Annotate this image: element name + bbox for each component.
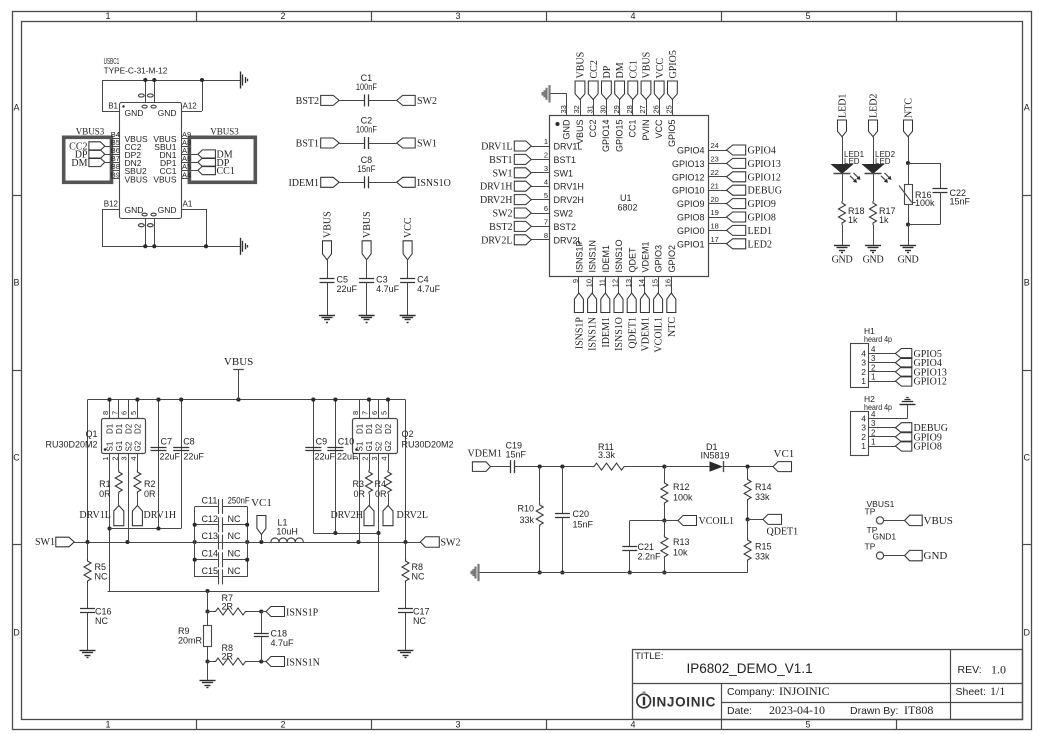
svg-text:NTC: NTC [904, 98, 915, 118]
svg-text:SW2: SW2 [441, 538, 461, 549]
svg-text:C: C [1023, 453, 1030, 463]
svg-text:NC: NC [95, 616, 108, 626]
svg-text:INJOINIC: INJOINIC [779, 684, 830, 698]
svg-text:DM: DM [615, 62, 626, 78]
svg-text:ISNS1O: ISNS1O [614, 239, 624, 272]
svg-text:R14: R14 [755, 482, 772, 492]
svg-text:S2: S2 [375, 441, 384, 451]
svg-text:CC1: CC1 [628, 60, 639, 78]
svg-text:ISNS1P: ISNS1P [575, 240, 585, 272]
svg-text:22uF: 22uF [337, 284, 358, 294]
svg-text:DRV1L: DRV1L [79, 510, 110, 521]
svg-text:A: A [13, 103, 19, 113]
svg-text:GPIO5: GPIO5 [668, 50, 679, 78]
svg-text:3.3k: 3.3k [598, 450, 616, 460]
svg-text:3: 3 [120, 457, 129, 461]
svg-text:100nF: 100nF [356, 125, 377, 135]
svg-text:D1: D1 [365, 423, 374, 434]
svg-text:Sheet:: Sheet: [956, 686, 986, 698]
svg-text:C: C [13, 453, 20, 463]
svg-text:2R: 2R [222, 652, 234, 662]
svg-text:DRV2L: DRV2L [397, 510, 428, 521]
svg-text:SW2: SW2 [417, 96, 437, 107]
svg-text:R10: R10 [517, 504, 534, 514]
svg-text:DRV1L: DRV1L [481, 142, 512, 153]
svg-text:INJOINIC: INJOINIC [652, 695, 716, 710]
svg-text:4: 4 [630, 720, 635, 730]
svg-text:GND: GND [562, 119, 572, 140]
svg-text:USBC1: USBC1 [104, 57, 120, 66]
svg-text:CC2: CC2 [588, 120, 598, 138]
svg-text:C12: C12 [202, 514, 219, 524]
svg-text:1: 1 [105, 720, 110, 730]
svg-text:GPIO12: GPIO12 [672, 172, 705, 182]
svg-text:NTC: NTC [667, 317, 678, 337]
svg-text:D: D [13, 628, 20, 638]
svg-text:DRV2L: DRV2L [481, 235, 512, 246]
svg-text:4: 4 [630, 11, 635, 21]
svg-text:BST2: BST2 [489, 222, 512, 233]
svg-text:GND: GND [158, 108, 177, 118]
svg-text:100nF: 100nF [356, 82, 377, 92]
svg-text:C3: C3 [376, 274, 388, 284]
svg-text:100k: 100k [673, 493, 693, 503]
svg-text:C11: C11 [202, 496, 218, 506]
svg-text:32: 32 [572, 105, 581, 113]
svg-text:8: 8 [351, 411, 360, 415]
svg-text:23: 23 [711, 155, 719, 164]
svg-text:11: 11 [598, 279, 607, 287]
svg-text:LED2: LED2 [748, 239, 772, 250]
svg-text:5: 5 [805, 720, 810, 730]
svg-text:B: B [1024, 278, 1030, 288]
svg-text:VBUS3: VBUS3 [210, 127, 239, 137]
svg-text:A: A [1024, 103, 1030, 113]
svg-text:GND1: GND1 [873, 532, 897, 542]
svg-text:3: 3 [455, 720, 460, 730]
svg-text:G2: G2 [134, 440, 143, 451]
svg-text:C15: C15 [202, 566, 219, 576]
svg-text:R2: R2 [144, 479, 156, 489]
svg-text:VBUS: VBUS [575, 120, 585, 145]
svg-text:27: 27 [638, 105, 647, 113]
svg-text:G2: G2 [384, 440, 393, 451]
svg-text:D2: D2 [384, 423, 393, 434]
svg-text:1: 1 [871, 373, 876, 382]
svg-text:ISNS1P: ISNS1P [575, 317, 586, 350]
svg-text:LED1: LED1 [838, 94, 849, 118]
svg-text:A1: A1 [183, 200, 193, 209]
svg-text:15nF: 15nF [950, 196, 971, 206]
svg-text:IP6802_DEMO_V1.1: IP6802_DEMO_V1.1 [687, 661, 813, 676]
svg-text:GPIO10: GPIO10 [672, 186, 705, 196]
svg-text:2023-04-10: 2023-04-10 [769, 703, 825, 717]
svg-text:VBUS: VBUS [576, 52, 587, 79]
svg-text:B: B [13, 278, 19, 288]
svg-text:22: 22 [711, 168, 719, 177]
svg-text:2: 2 [361, 457, 370, 461]
svg-text:C5: C5 [337, 274, 349, 284]
svg-text:S1: S1 [356, 441, 365, 451]
svg-text:GPIO0: GPIO0 [677, 226, 705, 236]
svg-text:1k: 1k [848, 215, 858, 225]
svg-text:Q1: Q1 [85, 429, 97, 439]
svg-text:7: 7 [110, 411, 119, 415]
svg-text:20: 20 [711, 195, 719, 204]
svg-text:VCC: VCC [654, 119, 664, 139]
svg-text:C4: C4 [417, 274, 429, 284]
svg-text:VBUS: VBUS [924, 515, 953, 527]
svg-text:heard 4p: heard 4p [864, 402, 892, 412]
svg-text:GND: GND [924, 550, 948, 562]
svg-text:S1: S1 [106, 441, 115, 451]
svg-text:6: 6 [370, 411, 379, 415]
svg-text:GPIO8: GPIO8 [677, 213, 705, 223]
svg-text:IT808: IT808 [904, 703, 933, 717]
svg-text:GPIO9: GPIO9 [677, 199, 705, 209]
svg-text:SW2: SW2 [493, 209, 513, 220]
svg-text:C7: C7 [161, 437, 173, 447]
svg-text:D1: D1 [106, 423, 115, 434]
svg-text:IDEM1: IDEM1 [601, 245, 611, 273]
svg-text:VBUS: VBUS [642, 52, 653, 79]
svg-text:15: 15 [650, 279, 659, 287]
svg-text:1: 1 [861, 376, 866, 386]
svg-text:DRV1H: DRV1H [144, 510, 177, 521]
svg-text:Q2: Q2 [402, 429, 414, 439]
svg-text:5: 5 [544, 191, 548, 200]
svg-text:3: 3 [370, 457, 379, 461]
svg-text:GPIO2: GPIO2 [667, 245, 677, 273]
svg-text:BST1: BST1 [554, 155, 577, 165]
svg-text:VC1: VC1 [251, 497, 272, 509]
svg-text:GPIO13: GPIO13 [748, 159, 781, 170]
svg-text:Company:: Company: [727, 686, 775, 698]
svg-text:VBUS: VBUS [362, 211, 373, 238]
svg-text:SW1: SW1 [35, 537, 55, 548]
svg-text:1/1: 1/1 [990, 684, 1005, 698]
svg-text:1.0: 1.0 [991, 663, 1006, 677]
svg-text:4: 4 [129, 457, 138, 461]
svg-text:PVIN: PVIN [641, 120, 651, 141]
svg-text:ISNS1N: ISNS1N [588, 317, 599, 351]
svg-text:4: 4 [871, 410, 876, 419]
svg-text:C21: C21 [638, 542, 655, 552]
svg-text:7: 7 [544, 218, 548, 227]
svg-text:DM: DM [71, 158, 87, 169]
svg-text:0R: 0R [353, 489, 365, 499]
svg-text:16: 16 [664, 279, 673, 287]
svg-text:12: 12 [611, 279, 620, 287]
svg-text:DRV2H: DRV2H [480, 195, 513, 206]
svg-text:GND: GND [125, 205, 144, 215]
svg-text:TP: TP [865, 542, 876, 552]
svg-text:VBUS3: VBUS3 [76, 127, 105, 137]
svg-text:6802: 6802 [618, 203, 638, 213]
svg-text:VCOIL1: VCOIL1 [654, 317, 665, 353]
svg-text:21: 21 [711, 181, 719, 190]
svg-text:GPIO12: GPIO12 [914, 377, 947, 388]
svg-text:DP: DP [602, 65, 613, 78]
svg-text:4: 4 [544, 177, 548, 186]
svg-text:15nF: 15nF [357, 164, 375, 174]
svg-text:Drawn By:: Drawn By: [850, 705, 898, 717]
svg-text:2.2nF: 2.2nF [638, 552, 662, 562]
svg-text:NC: NC [228, 531, 241, 541]
svg-text:NC: NC [413, 616, 426, 626]
svg-text:5: 5 [805, 11, 810, 21]
svg-text:D2: D2 [134, 423, 143, 434]
svg-text:CC2: CC2 [589, 60, 600, 78]
svg-text:ISNS1O: ISNS1O [417, 178, 451, 189]
svg-text:GND: GND [125, 108, 144, 118]
svg-text:IN5819: IN5819 [701, 451, 730, 461]
svg-text:BST1: BST1 [296, 139, 319, 150]
svg-text:C20: C20 [573, 509, 590, 519]
svg-text:NC: NC [228, 549, 241, 559]
svg-text:NC: NC [412, 572, 425, 582]
svg-text:15nF: 15nF [506, 449, 527, 459]
svg-text:2: 2 [544, 151, 548, 160]
svg-text:GPIO3: GPIO3 [654, 245, 664, 273]
svg-text:13: 13 [624, 279, 633, 287]
svg-text:C14: C14 [202, 549, 219, 559]
svg-text:1k: 1k [879, 215, 889, 225]
svg-text:B9: B9 [111, 170, 120, 179]
svg-text:TYPE-C-31-M-12: TYPE-C-31-M-12 [104, 67, 168, 76]
svg-text:2: 2 [871, 363, 876, 372]
svg-text:D2: D2 [124, 423, 133, 434]
svg-text:C8: C8 [183, 437, 195, 447]
svg-text:DRV2H: DRV2H [554, 195, 584, 205]
svg-text:B1: B1 [108, 102, 118, 111]
svg-text:VBUS: VBUS [224, 356, 253, 368]
svg-text:3: 3 [544, 164, 548, 173]
svg-text:GPIO8: GPIO8 [914, 442, 942, 453]
svg-text:B12: B12 [104, 200, 119, 209]
svg-text:RU30D20M2: RU30D20M2 [45, 440, 97, 450]
svg-text:VDEM1: VDEM1 [641, 317, 652, 351]
svg-text:6: 6 [544, 204, 548, 213]
svg-text:A12: A12 [183, 102, 198, 111]
svg-text:TITLE:: TITLE: [635, 651, 664, 662]
svg-text:20mR: 20mR [178, 636, 203, 646]
svg-text:2: 2 [280, 720, 285, 730]
svg-text:R8: R8 [412, 562, 424, 572]
svg-text:GPIO14: GPIO14 [601, 120, 611, 153]
svg-text:D1: D1 [356, 423, 365, 434]
svg-text:IDEM1: IDEM1 [288, 178, 319, 189]
svg-text:3: 3 [455, 11, 460, 21]
svg-text:VBUS: VBUS [125, 174, 148, 184]
svg-text:GPIO9: GPIO9 [748, 199, 776, 210]
svg-text:R1: R1 [99, 479, 111, 489]
svg-text:10k: 10k [673, 548, 688, 558]
svg-text:C10: C10 [338, 437, 355, 447]
svg-text:QDET1: QDET1 [767, 527, 799, 538]
svg-text:GND: GND [832, 255, 853, 266]
svg-text:GND: GND [158, 205, 177, 215]
svg-text:VCOIL1: VCOIL1 [699, 516, 735, 527]
svg-text:4.7uF: 4.7uF [417, 284, 441, 294]
svg-text:BST2: BST2 [296, 96, 319, 107]
svg-text:GPIO12: GPIO12 [748, 172, 781, 183]
svg-text:4: 4 [380, 457, 389, 461]
svg-text:VBUS: VBUS [323, 211, 334, 238]
svg-text:33k: 33k [755, 492, 770, 502]
svg-text:BST1: BST1 [489, 155, 512, 166]
svg-text:R4: R4 [374, 479, 386, 489]
svg-text:33k: 33k [519, 515, 534, 525]
svg-text:R13: R13 [673, 537, 690, 547]
svg-text:1: 1 [105, 11, 110, 21]
svg-text:3: 3 [871, 419, 876, 428]
svg-text:DRV1H: DRV1H [480, 182, 513, 193]
svg-text:24: 24 [711, 141, 719, 150]
svg-text:GPIO13: GPIO13 [672, 159, 705, 169]
svg-text:G1: G1 [365, 440, 374, 451]
svg-text:BST2: BST2 [554, 222, 577, 232]
svg-text:S2: S2 [124, 441, 133, 451]
svg-text:0R: 0R [375, 489, 387, 499]
svg-text:6: 6 [120, 411, 129, 415]
svg-text:QDET1: QDET1 [627, 317, 638, 349]
svg-text:G1: G1 [115, 440, 124, 451]
svg-text:VBUS: VBUS [153, 174, 176, 184]
svg-text:VDEM1: VDEM1 [641, 241, 651, 272]
svg-text:33k: 33k [755, 552, 770, 562]
svg-text:GPIO8: GPIO8 [748, 213, 776, 224]
svg-text:R5: R5 [95, 562, 107, 572]
svg-text:SW1: SW1 [493, 168, 513, 179]
svg-text:RU30D20M2: RU30D20M2 [402, 440, 454, 450]
svg-text:GPIO5: GPIO5 [667, 120, 677, 148]
svg-text:0R: 0R [144, 489, 156, 499]
svg-text:250nF: 250nF [228, 496, 251, 506]
svg-text:D2: D2 [375, 423, 384, 434]
svg-text:8: 8 [101, 411, 110, 415]
svg-text:22uF: 22uF [315, 451, 336, 461]
svg-text:SW1: SW1 [417, 139, 437, 150]
svg-text:NC: NC [228, 514, 241, 524]
svg-text:C13: C13 [202, 531, 219, 541]
svg-text:VDEM1: VDEM1 [468, 449, 502, 460]
svg-text:LED2: LED2 [869, 94, 880, 118]
svg-text:R3: R3 [352, 479, 364, 489]
svg-text:15nF: 15nF [573, 520, 594, 530]
svg-text:SW1: SW1 [554, 168, 574, 178]
svg-text:4.7uF: 4.7uF [376, 284, 400, 294]
svg-text:R12: R12 [673, 482, 690, 492]
svg-text:GPIO15: GPIO15 [614, 120, 624, 153]
svg-text:SW2: SW2 [554, 209, 574, 219]
svg-text:C16: C16 [95, 607, 112, 617]
svg-text:CC1: CC1 [217, 166, 235, 177]
svg-text:19: 19 [711, 208, 719, 217]
svg-text:2: 2 [110, 457, 119, 461]
svg-text:0R: 0R [99, 489, 111, 499]
svg-text:10: 10 [584, 279, 593, 287]
svg-text:ISNS1N: ISNS1N [286, 657, 320, 668]
svg-text:R15: R15 [755, 542, 772, 552]
svg-text:GND: GND [898, 255, 919, 266]
svg-text:CC1: CC1 [628, 120, 638, 138]
svg-text:D: D [1023, 628, 1030, 638]
svg-text:DEBUG: DEBUG [748, 186, 782, 197]
svg-text:QDET: QDET [627, 247, 637, 273]
svg-text:22uF: 22uF [183, 451, 204, 461]
svg-text:2: 2 [280, 11, 285, 21]
svg-text:DRV1H: DRV1H [554, 182, 584, 192]
svg-text:NC: NC [228, 566, 241, 576]
svg-text:GPIO4: GPIO4 [677, 146, 705, 156]
svg-text:10uH: 10uH [276, 527, 298, 537]
svg-text:8: 8 [544, 231, 548, 240]
svg-text:GPIO4: GPIO4 [748, 146, 776, 157]
svg-text:1: 1 [544, 137, 548, 146]
svg-text:22uF: 22uF [337, 451, 358, 461]
svg-text:100k: 100k [915, 198, 935, 208]
svg-text:1: 1 [861, 441, 866, 451]
svg-text:VCC: VCC [655, 58, 666, 79]
svg-text:C9: C9 [316, 437, 328, 447]
svg-text:17: 17 [711, 235, 719, 244]
svg-text:VCC: VCC [403, 217, 414, 238]
svg-text:heard 4p: heard 4p [864, 334, 892, 344]
svg-text:R9: R9 [178, 626, 190, 636]
svg-text:LED1: LED1 [748, 226, 772, 237]
svg-text:7: 7 [361, 411, 370, 415]
svg-text:C17: C17 [413, 607, 430, 617]
svg-text:ISNS1O: ISNS1O [614, 317, 625, 351]
svg-text:22uF: 22uF [160, 451, 181, 461]
svg-text:9: 9 [571, 279, 580, 283]
svg-text:VC1: VC1 [774, 448, 795, 460]
svg-text:Date:: Date: [727, 705, 752, 717]
svg-text:4.7uF: 4.7uF [271, 638, 295, 648]
svg-text:NC: NC [95, 572, 108, 582]
svg-text:ISNS1P: ISNS1P [286, 607, 319, 618]
svg-text:4: 4 [871, 345, 876, 354]
svg-text:GPIO1: GPIO1 [677, 239, 705, 249]
svg-text:A4: A4 [182, 170, 191, 179]
svg-text:REV:: REV: [958, 664, 982, 676]
svg-text:18: 18 [711, 222, 719, 231]
svg-text:GND: GND [863, 255, 884, 266]
svg-text:14: 14 [637, 279, 646, 287]
svg-text:D1: D1 [115, 423, 124, 434]
svg-text:2R: 2R [222, 602, 234, 612]
svg-text:3: 3 [871, 354, 876, 363]
svg-text:1: 1 [871, 438, 876, 447]
svg-text:U1: U1 [620, 193, 632, 203]
svg-text:5: 5 [129, 411, 138, 415]
svg-text:1: 1 [101, 457, 110, 461]
svg-text:IDEM1: IDEM1 [601, 317, 612, 348]
svg-text:TP: TP [865, 507, 876, 517]
svg-text:ISNS1N: ISNS1N [588, 240, 598, 273]
svg-text:5: 5 [380, 411, 389, 415]
